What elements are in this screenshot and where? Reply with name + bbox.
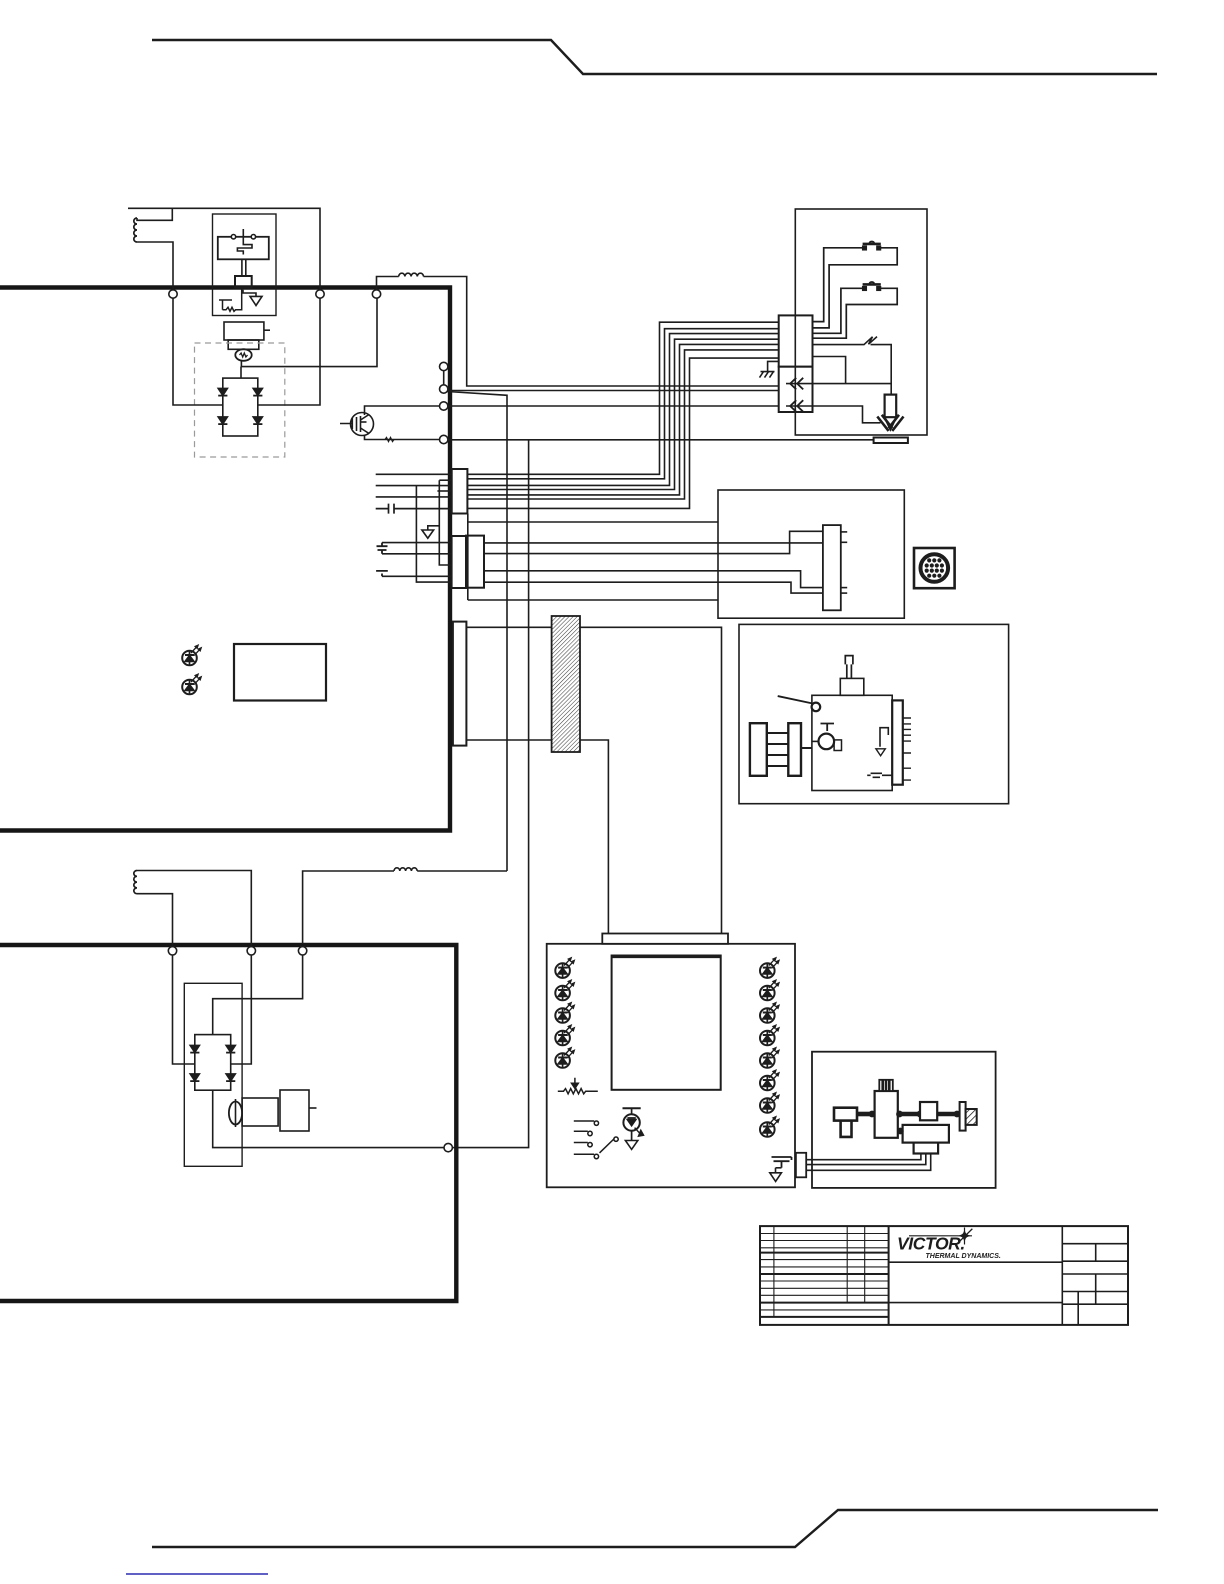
transformer T2 primary bobbin [235,276,252,288]
wire pilot return [448,390,779,392]
gas control valve box [739,624,1009,803]
connector J2 remote outer [466,536,484,588]
wire fan to node C [241,298,377,366]
torch shield cup right [889,415,904,431]
pump motor stub [309,1107,317,1109]
pilot wire into torch [786,383,891,385]
power supply 2 enclosure border [0,945,456,1301]
LED D8 [760,1003,779,1024]
ground arrow triangle [422,530,434,538]
node I terminal [298,947,306,955]
gas regulator body [875,1091,898,1138]
wire J3 pin2 to control board [466,740,608,934]
LED D11 [760,1070,779,1091]
remote terminal strip [823,525,841,610]
BR1 diode bottom-left [218,417,227,424]
wire electrode lead [448,405,779,407]
wire work lead branch to PS2 [452,440,529,1148]
selector switch pole 2 [574,1131,592,1135]
wire T1 top lead [128,208,172,220]
ground arrow C3 [770,1168,782,1182]
gas valve motor link [801,747,812,749]
jumper node D to E2 [443,371,445,385]
torch switch SW2 [813,282,898,338]
torch chassis ground [760,361,779,377]
J2 right wire 2 [484,531,823,553]
gas valve motor windings [767,733,789,766]
BR2 diode top-left [190,1045,199,1052]
remote strip stub 2 [841,541,847,543]
node C terminal [372,290,380,298]
remote strip stub 3 [841,587,847,589]
inductor L2 [303,868,507,944]
torch switch SW1 [813,242,898,328]
wire node I to bridge BR2 [213,955,303,1035]
Victor logo [897,1228,1001,1261]
ground arrow J1 [428,526,440,530]
gas line assembly box [812,1052,996,1188]
display module [612,956,721,1090]
wire node H to BR2 [231,955,252,1064]
torch connector upper half [779,315,813,366]
LED D7 [760,980,779,1001]
pilot plug chevrons [790,378,803,390]
control board output connector [796,1153,806,1178]
node E2 terminal [440,385,448,393]
dashed outline bridge assembly [195,343,285,457]
footer link underline [126,1573,268,1575]
LED PS1 upper [182,645,201,666]
pressure switch dot [897,1128,904,1135]
LED D13 [760,1117,779,1138]
relay K1 actuator [237,229,252,255]
J2 wire pin1 [382,542,452,544]
ground arrow gas valve [876,749,885,756]
gas pipe 2 dots [896,1111,923,1118]
SCR opto Q2 [623,1108,644,1140]
ground arrow SCR [625,1141,637,1150]
wire pressure switch 3 [806,1154,931,1171]
filter capacitor C3 [772,1157,792,1168]
PS1 label box [234,644,326,701]
gas check valve [920,1102,937,1120]
pressure switch body [903,1125,949,1143]
title block outer [760,1226,1128,1325]
J2 capacitor C1 in series [377,543,388,554]
J1 torch bundle wire 2 [467,329,779,479]
work clamp bar [874,438,908,444]
LED D10 [760,1048,779,1069]
page top border [152,40,1157,74]
wire J3 pin1 to control board [466,627,721,933]
pump motor M2 [229,1102,242,1125]
J2 capacitor C2 plate [376,571,388,576]
wire BR1 to node B [258,298,320,405]
gas outlet hatched port [966,1109,977,1125]
gas pipe 3 [937,1112,959,1117]
J1 left wire pin6 with capacitor [376,504,452,514]
T2 secondary stub [264,329,270,331]
BR2 diode bottom-left [190,1074,199,1081]
torch box edge through connector [794,315,796,412]
potentiometer R1 wiper arrow [572,1078,579,1089]
torch tip arrow [885,417,897,429]
wire node G to BR2 [173,955,195,1064]
wire Q1 collector to node E [365,406,440,415]
gas pipe 1 dot [869,1111,876,1118]
node J terminal [444,1143,452,1151]
LED D1 [555,958,574,979]
gas pipe 1 [857,1112,873,1117]
power supply 1 enclosure border [0,288,450,831]
fan motor M1 squiggle [240,353,248,357]
IGBT Q1 [340,413,374,436]
remote strip stub 4 [841,592,847,594]
J2 right wire 3 [484,571,823,588]
electrode plug chevrons [790,400,803,412]
torch PIP wire with break symbol [813,337,892,395]
relay K1 outer box [213,214,277,316]
remote strip stub 1 [841,531,847,533]
revision table lines [760,1226,889,1317]
LED D2 [555,980,574,1001]
J2 right wire 4 [484,582,823,593]
J1 left stub pin2 [439,479,451,481]
node D terminal [440,362,448,370]
gas valve inner box [880,728,888,747]
transformer T2 secondary box [224,322,264,340]
J1 torch bundle wire 5 [467,344,779,495]
J1 torch bundle wire 7 [467,358,779,508]
J1 torch bundle wire 4 [467,339,779,489]
wire T1 top to node B [172,208,320,290]
relay K1 contact right [251,235,255,239]
ground arrow PS1 input [250,296,262,305]
wire fan to bridge BR1 [240,367,242,379]
gas valve tee symbol [821,724,835,732]
BR2 diode bottom-right [226,1074,235,1081]
gas valve motor cap [750,723,767,776]
title block right grid [1062,1226,1128,1325]
LED D6 [760,958,779,979]
gas inlet fitting [834,1108,857,1121]
torch connector lower half [779,367,813,412]
torch shield cup left [877,415,892,431]
selector switch lever [600,1137,619,1153]
gas valve capacitor [867,773,892,777]
LED D9 [760,1025,779,1046]
node H terminal [247,947,255,955]
gas valve motor shaft box [788,723,801,776]
wire pressure switch 2 [806,1154,926,1165]
gas valve solenoid circle [819,734,835,750]
torch pin7 jumper [813,357,846,384]
J1 torch bundle wire 1 [467,322,779,474]
selector switch pole 3 [574,1143,592,1147]
remote pendant box [718,490,904,618]
bridge rectifier BR2 [195,1035,231,1091]
transformer T3 primary coil [134,871,137,894]
page bottom border [152,1510,1158,1547]
BR1 diode bottom-right [253,417,262,424]
wire node A to BR1 [173,298,223,405]
node G terminal [168,947,176,955]
J1 left wire pin5 [376,496,452,498]
gas valve main body [812,695,892,790]
J2 wire pin2 [382,553,452,555]
LED D12 [760,1093,779,1114]
J1 torch bundle wire 3 [467,334,779,486]
connector J1 torch leads [452,469,468,514]
gas solenoid coil [879,1080,893,1091]
relay K1 coil box [218,237,269,259]
selector switch pole 4 [574,1154,599,1158]
J1 left stub pin4 [437,490,451,492]
wire work lead [448,439,874,441]
output inductor L1 [377,273,780,386]
LED D5 [555,1048,574,1069]
node A terminal [169,290,177,298]
electrode wire into torch [786,406,881,423]
gas valve top port [840,678,864,695]
node F terminal [440,435,448,443]
revision table thick lines [760,1226,889,1325]
ground chassis lead K1 [243,290,256,297]
potentiometer R1 [558,1089,598,1094]
wire J1 bottom to remote box top [468,514,718,601]
gas valve lever pivot [812,703,821,712]
gas valve solenoid stub box [834,740,841,751]
gas valve lever switch [778,696,813,703]
wire T3 bottom lead [137,894,173,946]
fan motor M1 [235,349,251,361]
node E terminal [440,402,448,410]
gas pipe 3 dot [954,1111,961,1118]
LED D3 [555,1003,574,1024]
J2 wire pin3 [382,575,452,577]
signal dropper 1 [416,486,451,582]
CNC connector receptacle [914,548,955,588]
wire T1 bottom lead to node A [137,242,173,290]
control board outline [547,944,795,1188]
BR1 diode top-right [253,388,262,395]
J1 torch bundle wire 6 [467,350,779,499]
gas pipe 2 [898,1112,922,1117]
connector J2 remote [452,536,466,588]
display top bar [612,955,721,958]
node B terminal [316,290,324,298]
connector J3 control [453,622,467,746]
pump motor body [280,1090,309,1131]
wire T3 top lead [137,871,251,947]
J1 left wire pin3 [376,485,452,487]
wire Q1 emitter to node F [365,435,440,440]
pump motor M2 shaft [235,1099,237,1127]
bridge rectifier BR1 [223,378,258,436]
selector switch pole 1 [574,1121,599,1125]
J2 right wire 1 [484,542,823,544]
torch electrode body [885,395,897,418]
J1 left wire pin1 [376,473,452,475]
EMI shield block [552,616,580,752]
gas valve solenoid lead [812,740,819,742]
control board top connector [602,934,728,944]
gas outlet plate [960,1102,966,1131]
ground chain vertical [439,480,451,565]
transformer T1 primary coil [134,218,137,242]
svg-text:THERMAL DYNAMICS.: THERMAL DYNAMICS. [926,1253,1001,1260]
svg-text:VICTOR.: VICTOR. [897,1234,965,1254]
fan motor bobbin [228,340,259,349]
BR1 diode top-left [218,388,227,395]
relay K1 coil leads [242,259,246,276]
BR2 diode top-right [226,1045,235,1052]
wire BR2 to node J [213,1090,444,1147]
thermostat TS1 [219,290,242,312]
gas valve pcb strip [892,700,903,784]
relay K1 contact left [231,235,235,239]
gas valve antenna terminal [845,656,853,679]
gas inlet stem [841,1121,852,1137]
shunt squiggle [385,438,394,442]
LED PS1 lower [182,674,201,695]
title block middle dividers [889,1262,1063,1302]
LED D4 [555,1025,574,1046]
torch assembly box [795,209,927,435]
pressure switch base [914,1143,939,1154]
pump motor winding box [242,1098,278,1126]
gas valve pcb pins [903,718,911,780]
wire pilot branch to PS2 [448,392,508,872]
wire pressure switch 1 [806,1154,921,1160]
BR2 assembly outline [184,983,242,1166]
